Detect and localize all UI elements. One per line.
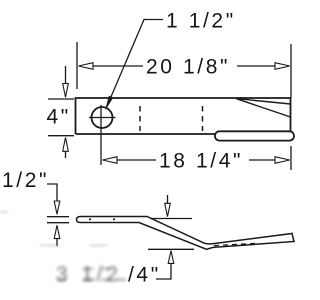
- arrowhead left of 20 1/8: [79, 63, 94, 70]
- svg-text:1/2": 1/2": [2, 169, 49, 192]
- dimension 3 1/4 extension line bottom: [148, 248, 194, 250]
- blade side view profile outline: [77, 217, 295, 250]
- dimension 4 extension line bottom: [48, 135, 74, 137]
- dimension 4 upper arrow shaft: [65, 66, 67, 84]
- dimension 3 1/4 upper arrowhead pointing down: [165, 203, 171, 216]
- bend line dashed right: [202, 106, 204, 131]
- bend line dashed left: [139, 106, 141, 131]
- svg-text:3 1/2: 3 1/2: [56, 263, 122, 286]
- hole crosshair horizontal: [89, 117, 116, 119]
- side view sharpened edge dashed line: [214, 243, 258, 245]
- dimension 3 1/4 upper arrow shaft: [167, 195, 169, 204]
- leader line from 1 1/2 to hole: [108, 20, 164, 106]
- side view hole center tick right: [113, 218, 115, 220]
- dimension line 20 1/8: [92, 65, 143, 67]
- dimension 4 lower arrowhead pointing up: [63, 138, 69, 152]
- bent tip tab in top view (rounded): [215, 131, 294, 140]
- arrowhead right of 18 1/4: [275, 157, 290, 164]
- hole centerline vertical down to dimension line: [100, 105, 102, 165]
- dimension 20 1/8 extension line right: [290, 44, 292, 170]
- dimension 4 lower arrow shaft: [65, 151, 67, 158]
- svg-text:4": 4": [47, 106, 71, 129]
- blade body top view outline: [76, 98, 291, 134]
- arrowhead left of 18 1/4: [103, 157, 118, 164]
- dimension 1/2 extension line bottom: [47, 222, 69, 224]
- dimension 1/2 lower arrow shaft: [56, 239, 58, 246]
- arrowhead right of 20 1/8: [275, 63, 290, 70]
- faint smudge noise under side view: [0, 212, 108, 246]
- dimension 4 upper arrowhead pointing down: [63, 84, 69, 98]
- dimension 3 1/4 lower arrowhead pointing up: [168, 251, 174, 264]
- bolt hole circle with crosshair: [92, 107, 113, 128]
- svg-text:1 1/2": 1 1/2": [166, 10, 236, 33]
- dimension 20 1/8 extension line left: [76, 42, 78, 89]
- dimension 4 extension line top: [48, 98, 74, 100]
- dimension line 18 1/4: [116, 159, 156, 161]
- svg-text:/4": /4": [128, 264, 161, 287]
- side view hole center tick left: [89, 218, 91, 220]
- dimension 3 1/4 extension line top: [150, 218, 192, 220]
- bevel edge diagonals at right end of top view: [236, 99, 291, 117]
- dimension 1/2 upper arrowhead pointing down: [54, 201, 60, 214]
- leader from 1/2 text: [47, 184, 57, 203]
- leader arrowhead at hole: [106, 96, 113, 109]
- leader from 3 1/4 text: [156, 263, 171, 279]
- faded text baseline remnants: [57, 269, 126, 281]
- dimension 1/2 lower arrowhead pointing up: [54, 225, 60, 238]
- dimension 1/2 extension line top: [47, 216, 69, 218]
- svg-text:20 1/8": 20 1/8": [146, 56, 230, 79]
- svg-text:18 1/4": 18 1/4": [159, 150, 243, 173]
